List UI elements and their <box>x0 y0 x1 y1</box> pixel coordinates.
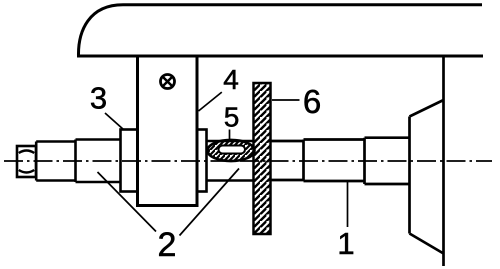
svg-text:2: 2 <box>158 226 177 264</box>
svg-text:4: 4 <box>223 64 239 95</box>
svg-text:1: 1 <box>337 226 354 261</box>
svg-text:5: 5 <box>224 102 240 133</box>
svg-text:6: 6 <box>303 83 321 120</box>
svg-text:3: 3 <box>90 81 107 116</box>
